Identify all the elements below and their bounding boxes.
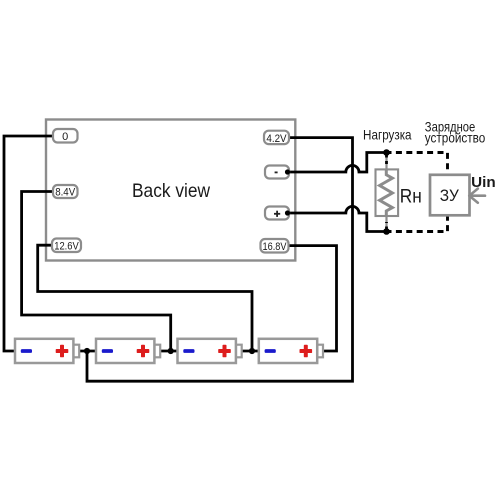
svg-text:4.2V: 4.2V xyxy=(266,133,287,145)
svg-text:16.8V: 16.8V xyxy=(263,241,288,253)
svg-text:Back view: Back view xyxy=(132,180,211,202)
svg-text:8.4V: 8.4V xyxy=(55,187,76,199)
svg-text:0: 0 xyxy=(62,131,68,143)
svg-text:ЗУ: ЗУ xyxy=(440,186,459,205)
svg-text:Rн: Rн xyxy=(400,186,422,208)
svg-text:устройство: устройство xyxy=(425,130,486,146)
svg-text:12.6V: 12.6V xyxy=(54,240,79,252)
svg-text:Uin: Uin xyxy=(471,174,496,191)
svg-text:Нагрузка: Нагрузка xyxy=(363,127,412,143)
